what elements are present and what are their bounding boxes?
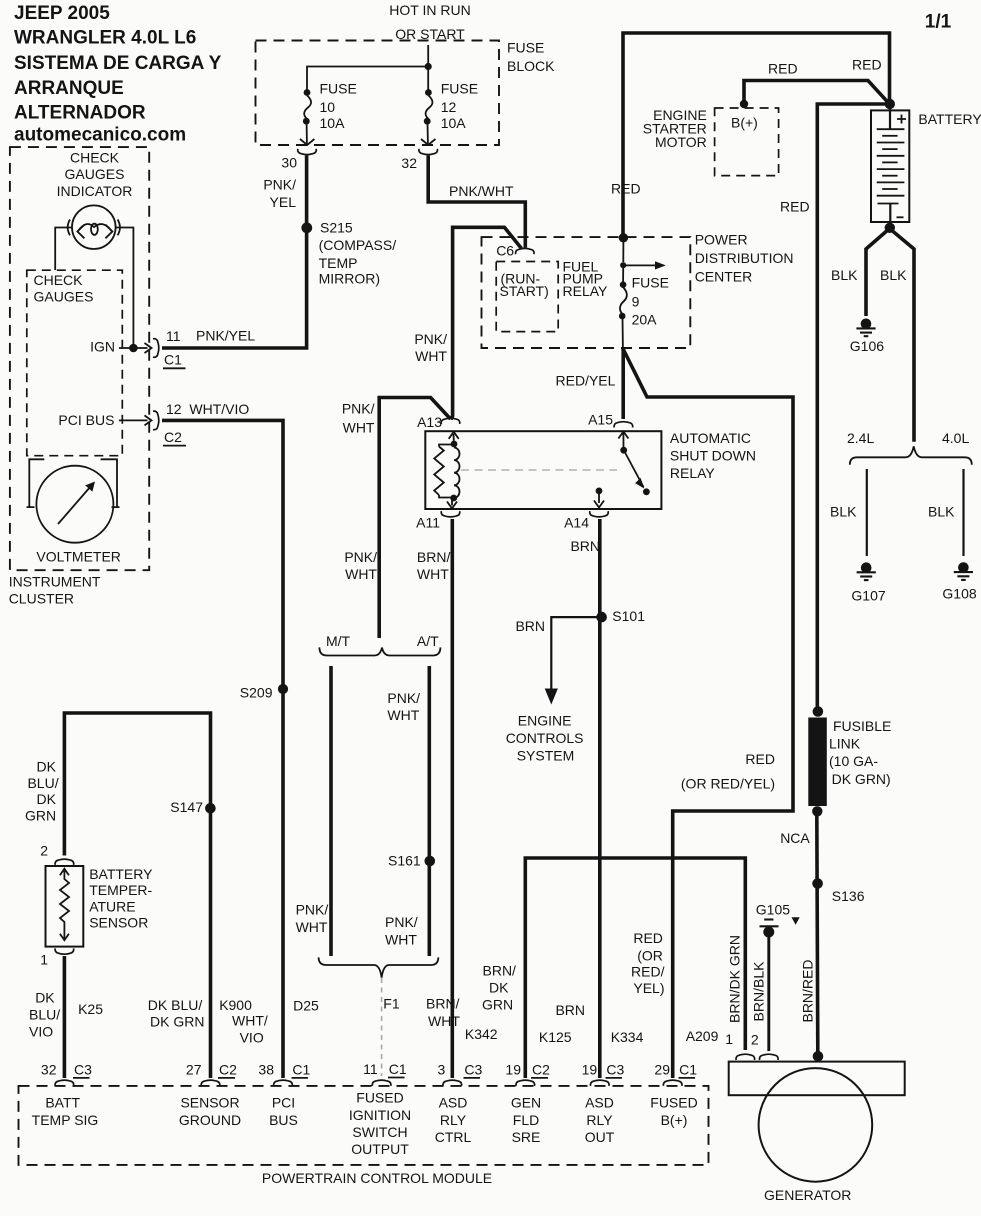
svg-text:ATURE: ATURE bbox=[89, 898, 135, 914]
svg-text:BRN/BLK: BRN/BLK bbox=[751, 961, 767, 1022]
svg-text:11: 11 bbox=[166, 328, 181, 344]
svg-text:DISTRIBUTION: DISTRIBUTION bbox=[695, 250, 794, 266]
svg-text:PCI: PCI bbox=[272, 1095, 295, 1111]
svg-text:S101: S101 bbox=[612, 608, 645, 624]
svg-text:G106: G106 bbox=[850, 338, 884, 354]
wire bus to fuse 10 bbox=[307, 67, 428, 90]
IGN lead with arrow bbox=[119, 347, 148, 349]
svg-text:CENTER: CENTER bbox=[695, 269, 753, 285]
ground G106 bbox=[856, 319, 875, 337]
svg-text:10A: 10A bbox=[320, 115, 346, 131]
svg-text:SYSTEM: SYSTEM bbox=[517, 747, 575, 763]
svg-text:ASD: ASD bbox=[439, 1095, 468, 1111]
svg-text:BLK: BLK bbox=[831, 267, 858, 283]
splice S101 bbox=[596, 612, 607, 623]
svg-text:SENSOR: SENSOR bbox=[180, 1095, 239, 1111]
svg-text:DK: DK bbox=[37, 791, 57, 807]
svg-text:POWERTRAIN CONTROL MODULE: POWERTRAIN CONTROL MODULE bbox=[262, 1170, 492, 1186]
svg-text:OUT: OUT bbox=[585, 1129, 615, 1145]
svg-text:9: 9 bbox=[632, 294, 640, 310]
svg-text:SISTEMA DE CARGA Y: SISTEMA DE CARGA Y bbox=[14, 53, 222, 74]
svg-text:WHT: WHT bbox=[385, 932, 417, 948]
svg-text:RED: RED bbox=[852, 57, 882, 73]
connector A11 bbox=[441, 511, 460, 517]
svg-text:WHT: WHT bbox=[387, 707, 419, 723]
battery bbox=[871, 110, 909, 222]
svg-text:BLU/: BLU/ bbox=[29, 1006, 60, 1022]
svg-text:A11: A11 bbox=[416, 515, 440, 531]
svg-text:27: 27 bbox=[186, 1061, 202, 1077]
svg-text:CONTROLS: CONTROLS bbox=[506, 730, 584, 746]
svg-text:B(+): B(+) bbox=[661, 1112, 688, 1128]
svg-text:WHT: WHT bbox=[417, 566, 449, 582]
svg-text:START): START) bbox=[500, 283, 549, 299]
wire F1 dashed to PCM pin 11 bbox=[381, 978, 383, 1076]
wire to fuse 9 bbox=[622, 238, 624, 262]
svg-text:FUSED: FUSED bbox=[356, 1090, 403, 1106]
battery temperature sensor box bbox=[46, 866, 84, 947]
svg-text:CHECK: CHECK bbox=[70, 149, 120, 165]
battery positive junction node bbox=[885, 99, 895, 109]
svg-text:4.0L: 4.0L bbox=[942, 430, 969, 446]
svg-text:PNK/: PNK/ bbox=[296, 901, 329, 917]
svg-text:MIRROR): MIRROR) bbox=[319, 270, 380, 286]
wire BLK to G108 bbox=[962, 469, 964, 556]
svg-text:30: 30 bbox=[281, 155, 297, 171]
svg-text:IGNITION: IGNITION bbox=[349, 1107, 411, 1123]
wire PNK/WHT M/T branch bbox=[329, 666, 333, 956]
svg-text:M/T: M/T bbox=[326, 633, 351, 649]
svg-text:PNK/: PNK/ bbox=[344, 549, 377, 565]
svg-text:C3: C3 bbox=[606, 1061, 624, 1077]
relay coil and resistor bbox=[451, 441, 458, 448]
svg-text:GROUND: GROUND bbox=[179, 1112, 241, 1128]
svg-text:CHECK: CHECK bbox=[34, 272, 84, 288]
wire PNK/WHT ignition branch bbox=[379, 398, 450, 639]
generator body circle bbox=[759, 1068, 873, 1182]
wire DK BLU/DK GRN sensor ground from PCM pin 27 bbox=[64, 713, 210, 1078]
svg-text:WHT/: WHT/ bbox=[232, 1013, 268, 1029]
svg-text:TEMP: TEMP bbox=[319, 255, 358, 271]
relay switch arm from A15 bbox=[618, 432, 628, 439]
svg-text:ALTERNADOR: ALTERNADOR bbox=[14, 103, 146, 124]
wire RED/YEL fused B(+) run from fuse 9 bbox=[623, 349, 793, 1079]
svg-text:NCA: NCA bbox=[780, 830, 810, 846]
svg-text:INDICATOR: INDICATOR bbox=[57, 183, 133, 199]
svg-text:1: 1 bbox=[725, 1031, 733, 1047]
svg-text:BLOCK: BLOCK bbox=[507, 58, 555, 74]
wire PNK/WHT fuse 32 to C6 bbox=[428, 156, 525, 248]
connector generator pin 2 bbox=[760, 1054, 779, 1060]
voltmeter bbox=[36, 466, 113, 543]
wire BRN branch to engine controls bbox=[551, 617, 596, 689]
svg-text:FUSE: FUSE bbox=[320, 81, 357, 97]
svg-text:C1: C1 bbox=[679, 1061, 697, 1077]
svg-text:BLK: BLK bbox=[928, 504, 955, 520]
svg-text:CTRL: CTRL bbox=[435, 1129, 472, 1145]
svg-text:RED: RED bbox=[611, 181, 641, 197]
svg-text:G105: G105 bbox=[756, 902, 790, 918]
brace M/T A/T split bbox=[319, 647, 440, 655]
svg-text:DK GRN: DK GRN bbox=[150, 1013, 204, 1029]
svg-text:DK BLU/: DK BLU/ bbox=[148, 997, 203, 1013]
svg-text:BRN/: BRN/ bbox=[417, 549, 451, 565]
svg-text:C6: C6 bbox=[496, 243, 514, 259]
svg-text:BUS: BUS bbox=[269, 1112, 298, 1128]
wire RED to starter B(+) bbox=[744, 81, 890, 105]
svg-text:LINK: LINK bbox=[829, 735, 861, 751]
wire from lamp to check gauges unit bbox=[55, 228, 72, 271]
connector A15 bbox=[614, 422, 633, 428]
run-start inner dashed box bbox=[496, 262, 558, 332]
svg-text:A14: A14 bbox=[564, 515, 589, 531]
svg-text:D25: D25 bbox=[293, 998, 319, 1014]
svg-text:BLU/: BLU/ bbox=[27, 775, 58, 791]
svg-text:ENGINE: ENGINE bbox=[518, 713, 572, 729]
svg-text:S161: S161 bbox=[388, 853, 421, 869]
svg-text:32: 32 bbox=[41, 1061, 57, 1077]
splice S215 bbox=[301, 222, 312, 233]
wire DK BLU/VIO to PCM pin 32 bbox=[63, 956, 67, 1078]
svg-text:JEEP 2005: JEEP 2005 bbox=[14, 3, 110, 24]
fuse 9 20A bbox=[620, 281, 627, 288]
svg-text:10A: 10A bbox=[441, 115, 467, 131]
wire from bus to fuse 12 bbox=[427, 67, 429, 90]
wire to ASD relay A15 bbox=[621, 349, 625, 420]
svg-text:2: 2 bbox=[40, 843, 48, 859]
svg-text:FUSE: FUSE bbox=[441, 81, 478, 97]
svg-text:(OR: (OR bbox=[637, 947, 663, 963]
PCM pin 11 C1 bbox=[372, 1080, 391, 1086]
wire BLK battery to engine grounds bbox=[890, 229, 915, 442]
svg-text:A15: A15 bbox=[588, 411, 613, 427]
svg-text:C2: C2 bbox=[532, 1061, 550, 1077]
svg-text:19: 19 bbox=[505, 1061, 521, 1077]
relay output contact to A14 bbox=[596, 488, 603, 495]
svg-text:POWER: POWER bbox=[695, 231, 748, 247]
junction node RED at PDC bbox=[619, 233, 628, 242]
automatic shut down relay box bbox=[425, 431, 661, 509]
svg-text:12: 12 bbox=[441, 99, 457, 115]
svg-text:FUSED: FUSED bbox=[650, 1095, 697, 1111]
tap node with arrow bbox=[620, 262, 626, 268]
svg-text:BATTERY: BATTERY bbox=[89, 866, 153, 882]
node B(+) bbox=[740, 100, 748, 108]
svg-text:S136: S136 bbox=[832, 888, 865, 904]
splice S209 bbox=[278, 684, 288, 694]
wire PNK/YEL from fuse 30 to cluster IGN bbox=[162, 156, 307, 349]
svg-text:BATT: BATT bbox=[45, 1095, 80, 1111]
generator case bbox=[729, 1062, 905, 1096]
svg-text:WHT: WHT bbox=[415, 348, 447, 364]
svg-text:C3: C3 bbox=[464, 1061, 482, 1077]
svg-text:SRE: SRE bbox=[512, 1129, 541, 1145]
svg-text:RLY: RLY bbox=[586, 1112, 613, 1128]
svg-text:DK: DK bbox=[489, 979, 509, 995]
svg-text:S215: S215 bbox=[320, 220, 353, 236]
ground G107 bbox=[857, 562, 876, 580]
svg-text:SHUT DOWN: SHUT DOWN bbox=[670, 447, 756, 463]
svg-text:VOLTMETER: VOLTMETER bbox=[36, 549, 121, 565]
junction on IGN lead bbox=[129, 344, 138, 353]
svg-text:PNK/WHT: PNK/WHT bbox=[449, 183, 514, 199]
svg-text:YEL): YEL) bbox=[633, 980, 664, 996]
svg-text:(COMPASS/: (COMPASS/ bbox=[319, 237, 397, 253]
svg-text:DK: DK bbox=[37, 759, 57, 775]
svg-text:RED/YEL: RED/YEL bbox=[556, 373, 616, 389]
svg-text:FLD: FLD bbox=[513, 1112, 539, 1128]
wire BLK to G107 bbox=[866, 469, 868, 556]
svg-text:WHT: WHT bbox=[296, 919, 328, 935]
thermistor symbol bbox=[60, 869, 69, 876]
svg-text:VIO: VIO bbox=[240, 1030, 264, 1046]
svg-text:RED: RED bbox=[633, 930, 663, 946]
svg-text:S209: S209 bbox=[240, 685, 273, 701]
svg-text:TEMP SIG: TEMP SIG bbox=[32, 1112, 99, 1128]
svg-text:WHT: WHT bbox=[343, 420, 375, 436]
svg-text:PNK/: PNK/ bbox=[263, 177, 296, 193]
svg-text:GRN: GRN bbox=[25, 808, 56, 824]
svg-text:BRN/RED: BRN/RED bbox=[800, 959, 816, 1022]
wire WHT/VIO PCI bus from C2 down to PCM pin 38 bbox=[162, 420, 283, 1078]
svg-text:TEMPER-: TEMPER- bbox=[89, 882, 152, 898]
svg-text:G108: G108 bbox=[942, 586, 976, 602]
wire PNK/WHT C6 branch to ASD relay A13 bbox=[451, 227, 522, 419]
junction node in fuse block bbox=[425, 63, 432, 70]
wire RED battery feed top bbox=[623, 33, 890, 238]
PCM pin 19 C3 bbox=[591, 1080, 610, 1086]
svg-text:BRN: BRN bbox=[570, 538, 600, 554]
svg-text:12: 12 bbox=[166, 401, 182, 417]
svg-text:SENSOR: SENSOR bbox=[89, 915, 148, 931]
engine starter motor dashed box bbox=[715, 108, 779, 176]
relay mechanical link dashed bbox=[461, 469, 617, 471]
connector A13 bbox=[441, 418, 460, 424]
svg-text:ARRANQUE: ARRANQUE bbox=[14, 78, 124, 99]
relay coil output arrow to A11 bbox=[451, 500, 453, 506]
svg-text:WHT: WHT bbox=[345, 566, 377, 582]
wire RED battery to fusible link bbox=[817, 104, 889, 708]
svg-text:BRN/: BRN/ bbox=[426, 996, 460, 1012]
svg-text:RELAY: RELAY bbox=[563, 283, 609, 299]
svg-text:38: 38 bbox=[258, 1061, 274, 1077]
connector C1 pin 11 bbox=[153, 339, 159, 358]
svg-text:RED/: RED/ bbox=[631, 964, 665, 980]
svg-text:BLK: BLK bbox=[880, 267, 907, 283]
wire from HOT IN RUN into fuse block bbox=[427, 45, 429, 67]
svg-text:K334: K334 bbox=[611, 1029, 644, 1045]
svg-text:HOT IN RUN: HOT IN RUN bbox=[389, 2, 470, 18]
ground G108 bbox=[954, 562, 973, 580]
svg-text:FUSIBLE: FUSIBLE bbox=[833, 718, 891, 734]
PCM pin 27 C2 bbox=[201, 1080, 220, 1086]
svg-text:GAUGES: GAUGES bbox=[34, 289, 94, 305]
connector pin 32 bbox=[419, 149, 438, 155]
svg-text:1/1: 1/1 bbox=[925, 12, 952, 33]
svg-text:C1: C1 bbox=[292, 1061, 310, 1077]
svg-text:AUTOMATIC: AUTOMATIC bbox=[670, 430, 751, 446]
svg-text:PNK/YEL: PNK/YEL bbox=[196, 328, 255, 344]
svg-text:C1: C1 bbox=[164, 352, 182, 368]
power distribution center dashed box bbox=[482, 237, 691, 348]
svg-text:S147: S147 bbox=[170, 799, 203, 815]
connector sensor pin 1 bbox=[55, 948, 74, 954]
PCM pin 29 C1 bbox=[663, 1080, 682, 1086]
svg-text:RLY: RLY bbox=[440, 1112, 467, 1128]
wire from indicator lamp to IGN junction bbox=[116, 228, 134, 345]
svg-text:ASD: ASD bbox=[585, 1095, 614, 1111]
svg-text:PNK/: PNK/ bbox=[387, 690, 420, 706]
svg-text:BRN/: BRN/ bbox=[483, 963, 517, 979]
svg-text:K900: K900 bbox=[219, 997, 252, 1013]
check gauges indicator lamp bbox=[72, 205, 116, 249]
relay coil input arrow from A13 bbox=[453, 434, 455, 441]
wire BRN/DK GRN generator field: PCM pin 19 C2 to generator pin 1 bbox=[525, 858, 745, 1078]
wire PNK/WHT A/T branch bbox=[427, 666, 431, 956]
svg-text:GRN: GRN bbox=[482, 996, 513, 1012]
svg-text:K125: K125 bbox=[539, 1029, 572, 1045]
junction node BRN/RED at generator bbox=[813, 1051, 824, 1062]
svg-text:RED: RED bbox=[745, 751, 775, 767]
svg-text:GEN: GEN bbox=[511, 1095, 541, 1111]
svg-text:C2: C2 bbox=[219, 1061, 237, 1077]
fuse 10 10A bbox=[304, 89, 311, 96]
svg-text:(10 GA-: (10 GA- bbox=[829, 753, 878, 769]
svg-text:WHT: WHT bbox=[428, 1013, 460, 1029]
PCM pin 32 C3 bbox=[55, 1080, 74, 1086]
svg-text:GAUGES: GAUGES bbox=[65, 166, 125, 182]
svg-text:YEL: YEL bbox=[270, 194, 297, 210]
svg-text:RED: RED bbox=[768, 61, 798, 77]
svg-text:PNK/: PNK/ bbox=[342, 401, 375, 417]
svg-text:C3: C3 bbox=[74, 1061, 92, 1077]
svg-text:DK GRN): DK GRN) bbox=[832, 771, 891, 787]
svg-text:FUSE: FUSE bbox=[632, 274, 669, 290]
svg-text:BRN/DK GRN: BRN/DK GRN bbox=[727, 935, 743, 1023]
brace engine selector bbox=[850, 446, 972, 464]
svg-text:RELAY: RELAY bbox=[670, 465, 716, 481]
splice S136 bbox=[812, 878, 823, 889]
battery negative junction node bbox=[885, 223, 895, 233]
svg-text:CLUSTER: CLUSTER bbox=[9, 591, 74, 607]
svg-text:DK: DK bbox=[35, 989, 55, 1005]
svg-text:A/T: A/T bbox=[417, 633, 439, 649]
svg-text:3: 3 bbox=[438, 1061, 446, 1077]
svg-text:32: 32 bbox=[401, 155, 417, 171]
svg-text:C2: C2 bbox=[164, 429, 182, 445]
PCM pin 38 C1 bbox=[274, 1080, 293, 1086]
svg-text:BRN: BRN bbox=[515, 618, 545, 634]
svg-text:K25: K25 bbox=[78, 1001, 103, 1017]
svg-text:A13: A13 bbox=[417, 414, 442, 430]
fuse 12 10A bbox=[425, 89, 432, 96]
svg-text:GENERATOR: GENERATOR bbox=[764, 1187, 851, 1203]
svg-text:RED: RED bbox=[780, 199, 810, 215]
wire BLK battery to G106 bbox=[866, 229, 890, 317]
svg-text:F1: F1 bbox=[383, 996, 400, 1012]
svg-text:INSTRUMENT: INSTRUMENT bbox=[9, 574, 101, 590]
svg-text:C1: C1 bbox=[389, 1061, 407, 1077]
connector generator pin 1 bbox=[736, 1054, 755, 1060]
fusible link bbox=[813, 706, 824, 717]
svg-text:BLK: BLK bbox=[830, 504, 857, 520]
svg-text:29: 29 bbox=[654, 1061, 670, 1077]
svg-text:B(+): B(+) bbox=[731, 115, 758, 131]
connector A14 bbox=[590, 511, 609, 517]
svg-text:20A: 20A bbox=[632, 311, 658, 327]
connector C2 pin 12 bbox=[153, 411, 159, 430]
svg-text:WHT/VIO: WHT/VIO bbox=[189, 401, 249, 417]
svg-text:VIO: VIO bbox=[29, 1024, 53, 1040]
svg-text:WRANGLER 4.0L L6: WRANGLER 4.0L L6 bbox=[14, 28, 196, 49]
svg-text:K342: K342 bbox=[465, 1026, 498, 1042]
svg-text:(OR RED/YEL): (OR RED/YEL) bbox=[681, 776, 775, 792]
svg-text:IGN: IGN bbox=[90, 339, 115, 355]
svg-text:automecanico.com: automecanico.com bbox=[14, 125, 186, 146]
fuse block dashed box bbox=[256, 41, 500, 146]
svg-text:PCI BUS: PCI BUS bbox=[58, 412, 114, 428]
svg-text:A209: A209 bbox=[686, 1028, 719, 1044]
PCM pin 19 C2 bbox=[516, 1080, 535, 1086]
brace joining M/T A/T to F1 bbox=[319, 957, 439, 977]
wire BRN/WHT from A11 to PCM pin 3 bbox=[450, 519, 454, 1078]
svg-text:2: 2 bbox=[751, 1031, 759, 1047]
connector sensor pin 2 bbox=[55, 859, 74, 865]
svg-text:FUSE: FUSE bbox=[507, 40, 544, 56]
svg-text:BATTERY: BATTERY bbox=[918, 111, 981, 127]
wire BRN/BLK G105 to generator pin 2 bbox=[767, 937, 770, 1051]
svg-text:11: 11 bbox=[363, 1061, 378, 1077]
svg-text:MOTOR: MOTOR bbox=[655, 134, 707, 150]
splice S147 bbox=[205, 803, 216, 814]
svg-text:PNK/: PNK/ bbox=[385, 914, 418, 930]
svg-text:19: 19 bbox=[582, 1061, 598, 1077]
svg-text:10: 10 bbox=[320, 99, 336, 115]
wire BRN from A14 to PCM pin 19 C3 bbox=[598, 519, 602, 1078]
wire NCA / BRN/RED from fusible link to generator bbox=[817, 811, 818, 1053]
connector pin 30 bbox=[298, 149, 317, 155]
splice S161 bbox=[425, 856, 436, 867]
svg-text:BRN: BRN bbox=[555, 1002, 585, 1018]
powertrain control module dashed box bbox=[19, 1086, 709, 1165]
instrument cluster dashed box bbox=[10, 147, 149, 570]
svg-text:SWITCH: SWITCH bbox=[352, 1124, 407, 1140]
svg-text:PNK/: PNK/ bbox=[414, 331, 447, 347]
svg-text:1: 1 bbox=[40, 952, 48, 968]
svg-text:OUTPUT: OUTPUT bbox=[351, 1141, 409, 1157]
check gauges inner dashed box bbox=[27, 270, 123, 456]
svg-text:G107: G107 bbox=[851, 587, 885, 603]
svg-text:2.4L: 2.4L bbox=[847, 430, 874, 446]
PCM pin 3 C3 bbox=[443, 1080, 462, 1086]
